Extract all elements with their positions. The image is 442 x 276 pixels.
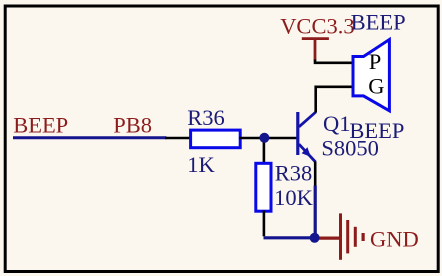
svg-text:10K: 10K <box>274 185 314 210</box>
buzzer LS body <box>353 40 389 111</box>
pin wire R36 pin2 (black) <box>239 137 264 140</box>
emitter wire navy lower part <box>314 186 317 238</box>
power VCC3.3 bar <box>302 37 329 40</box>
ground bar 2 <box>346 220 349 253</box>
ground bar 3 <box>354 227 357 247</box>
resistor R36 body <box>191 130 241 148</box>
pin wire R38 bottom (black) <box>263 211 266 237</box>
collector pin wire up and right to buzzer G (black) <box>316 87 353 113</box>
transistor Q1 emitter diagonal <box>299 144 316 162</box>
svg-text:BEEP: BEEP <box>13 113 68 138</box>
wire net BEEP (left horizontal) <box>13 136 167 139</box>
ground bar 4 <box>362 233 365 241</box>
node junction 1 <box>259 133 269 143</box>
wire junction down to R38 (black) <box>263 138 266 164</box>
svg-text:R36: R36 <box>187 105 225 130</box>
svg-text:P: P <box>369 49 382 74</box>
transistor Q1 emitter arrow <box>302 147 311 157</box>
svg-text:1K: 1K <box>187 152 215 177</box>
wire VCC to buzzer P pin (black) <box>315 60 353 63</box>
emitter pin wire down (black) <box>314 162 317 187</box>
node junction 2 <box>310 233 320 243</box>
wire junction 2 to GND (dark red) <box>317 237 340 240</box>
svg-text:BEEP: BEEP <box>351 10 406 35</box>
transistor Q1 base bar <box>296 112 299 155</box>
pin wire R36 pin1 (black) <box>165 137 191 140</box>
svg-text:R38: R38 <box>275 160 313 185</box>
svg-text:BEEP: BEEP <box>349 118 404 143</box>
resistor R38 body <box>256 163 271 211</box>
power VCC3.3 stem <box>314 39 317 61</box>
svg-text:Q1: Q1 <box>323 111 351 136</box>
svg-text:G: G <box>368 74 384 99</box>
svg-text:GND: GND <box>370 227 419 252</box>
wire junction to base (black) <box>265 137 299 140</box>
wire R38 bottom to junction 2 (navy) <box>264 236 314 239</box>
svg-text:VCC3.3: VCC3.3 <box>280 13 354 38</box>
transistor Q1 collector diagonal <box>299 112 316 127</box>
ground bar 1 <box>339 213 342 259</box>
svg-text:PB8: PB8 <box>113 113 152 138</box>
